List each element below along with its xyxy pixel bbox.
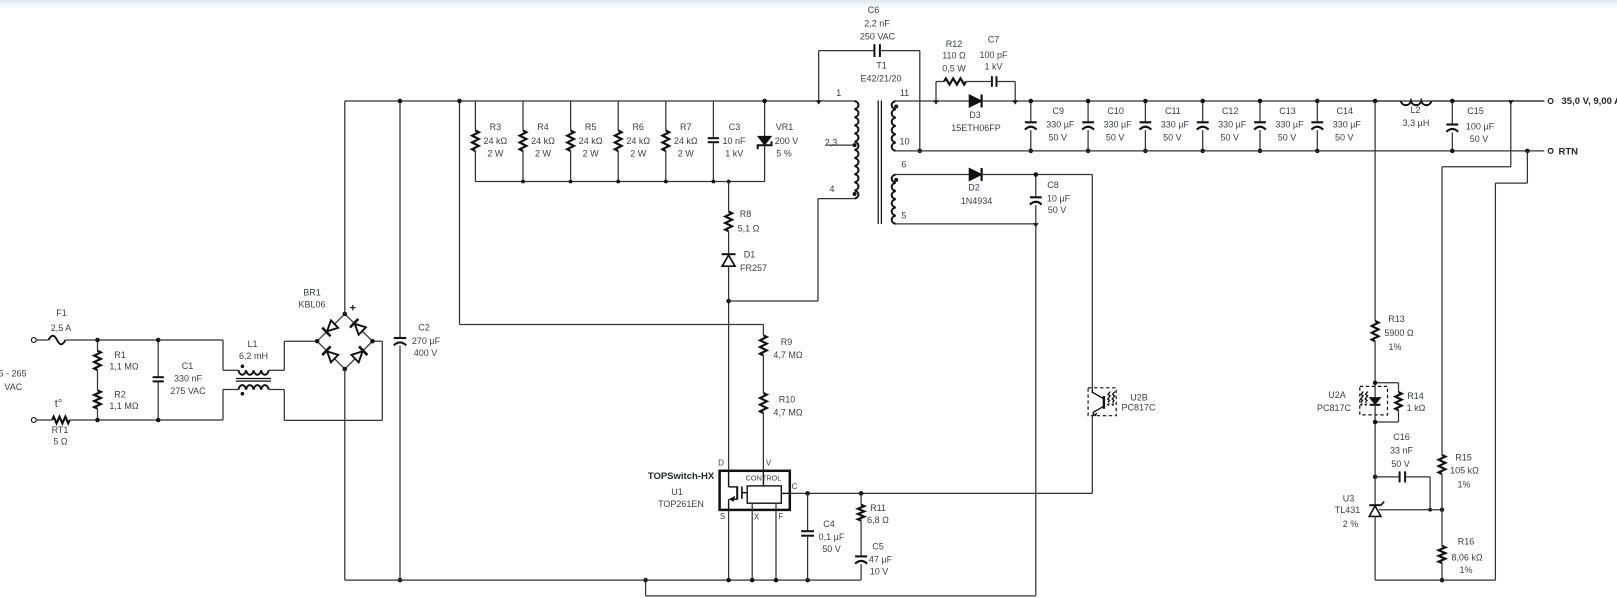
svg-text:5900 Ω: 5900 Ω	[1384, 328, 1414, 338]
svg-text:24 kΩ: 24 kΩ	[674, 136, 698, 146]
svg-text:L2: L2	[1410, 105, 1420, 115]
svg-text:250 VAC: 250 VAC	[860, 32, 896, 42]
svg-text:275 VAC: 275 VAC	[170, 386, 206, 396]
svg-text:R13: R13	[1388, 314, 1405, 324]
svg-text:FR257: FR257	[740, 263, 767, 273]
svg-text:4,7 MΩ: 4,7 MΩ	[773, 350, 803, 360]
svg-text:100 pF: 100 pF	[979, 50, 1008, 60]
svg-text:50 V: 50 V	[1470, 134, 1489, 144]
svg-text:1 kV: 1 kV	[984, 62, 1002, 72]
svg-text:C11: C11	[1165, 106, 1181, 116]
svg-text:U2A: U2A	[1328, 390, 1346, 400]
svg-text:U1: U1	[671, 487, 683, 497]
svg-text:50 V: 50 V	[1048, 205, 1067, 215]
svg-text:TL431: TL431	[1335, 505, 1361, 515]
svg-text:TOPSwitch-HX: TOPSwitch-HX	[648, 471, 715, 482]
svg-text:+: +	[350, 303, 356, 315]
svg-text:4: 4	[829, 184, 834, 194]
svg-text:50 V: 50 V	[1220, 133, 1239, 143]
svg-text:2,5 A: 2,5 A	[51, 323, 72, 333]
svg-text:50 V: 50 V	[1049, 133, 1068, 143]
svg-text:400 V: 400 V	[414, 348, 438, 358]
svg-text:105 kΩ: 105 kΩ	[1450, 466, 1479, 476]
svg-text:R9: R9	[781, 337, 793, 347]
svg-text:E42/21/20: E42/21/20	[860, 74, 901, 84]
svg-text:330 µF: 330 µF	[1161, 119, 1190, 129]
svg-text:10 nF: 10 nF	[722, 136, 746, 146]
svg-text:3,3 µH: 3,3 µH	[1403, 118, 1430, 128]
svg-text:1,1 MΩ: 1,1 MΩ	[109, 362, 139, 372]
svg-text:C15: C15	[1467, 106, 1484, 116]
svg-text:2 W: 2 W	[678, 148, 695, 158]
svg-text:270 µF: 270 µF	[412, 336, 441, 346]
svg-text:C1: C1	[182, 361, 194, 371]
svg-text:5: 5	[901, 211, 906, 221]
svg-text:R7: R7	[680, 122, 692, 132]
svg-text:50 V: 50 V	[1391, 459, 1410, 469]
svg-text:0,5 W: 0,5 W	[942, 64, 966, 74]
svg-text:2,2 nF: 2,2 nF	[864, 19, 890, 29]
svg-text:R11: R11	[870, 503, 886, 513]
svg-text:11: 11	[900, 88, 909, 98]
svg-text:2 %: 2 %	[1343, 519, 1359, 529]
svg-text:R1: R1	[114, 350, 126, 360]
svg-text:R12: R12	[946, 39, 963, 49]
svg-text:2 W: 2 W	[583, 148, 600, 158]
svg-text:C4: C4	[823, 519, 835, 529]
svg-text:5 Ω: 5 Ω	[53, 437, 68, 447]
svg-text:10 V: 10 V	[870, 567, 889, 577]
svg-text:24 kΩ: 24 kΩ	[626, 136, 650, 146]
svg-text:10: 10	[899, 137, 909, 147]
svg-text:50 V: 50 V	[1278, 133, 1297, 143]
svg-text:C14: C14	[1337, 106, 1354, 116]
svg-text:0,1 µF: 0,1 µF	[819, 532, 845, 542]
svg-text:C5: C5	[872, 542, 884, 552]
svg-text:1 kΩ: 1 kΩ	[1407, 403, 1426, 413]
svg-text:6: 6	[901, 160, 906, 170]
svg-text:330 µF: 330 µF	[1218, 119, 1247, 129]
svg-text:V: V	[766, 459, 772, 468]
svg-text:33 nF: 33 nF	[1390, 446, 1414, 456]
svg-text:L1: L1	[247, 339, 257, 349]
svg-text:C16: C16	[1393, 432, 1410, 442]
svg-text:R8: R8	[740, 209, 752, 219]
svg-text:R16: R16	[1458, 537, 1475, 547]
svg-text:1 kV: 1 kV	[725, 148, 743, 158]
svg-text:50 V: 50 V	[1163, 133, 1182, 143]
svg-text:6,8 Ω: 6,8 Ω	[867, 515, 889, 525]
svg-text:R14: R14	[1407, 391, 1424, 401]
svg-text:50 V: 50 V	[1106, 133, 1125, 143]
svg-text:C13: C13	[1279, 106, 1296, 116]
svg-text:C8: C8	[1047, 180, 1059, 190]
svg-text:330 µF: 330 µF	[1103, 119, 1132, 129]
svg-text:C6: C6	[868, 5, 880, 15]
svg-text:X: X	[754, 513, 760, 522]
svg-text:200 V: 200 V	[775, 136, 799, 146]
svg-text:D2: D2	[968, 183, 980, 193]
svg-text:24 kΩ: 24 kΩ	[484, 136, 508, 146]
svg-text:D: D	[718, 459, 724, 468]
svg-text:85 - 265: 85 - 265	[0, 369, 27, 379]
svg-text:24 kΩ: 24 kΩ	[531, 136, 555, 146]
svg-text:KBL06: KBL06	[298, 300, 325, 310]
svg-text:t°: t°	[55, 398, 62, 410]
svg-text:5,1 Ω: 5,1 Ω	[738, 224, 760, 234]
svg-text:6,2 mH: 6,2 mH	[239, 351, 268, 361]
svg-text:100 µF: 100 µF	[1466, 122, 1495, 132]
svg-text:F1: F1	[56, 308, 67, 318]
svg-text:R6: R6	[632, 122, 644, 132]
svg-text:5 %: 5 %	[776, 148, 792, 158]
svg-text:PC817C: PC817C	[1317, 403, 1352, 413]
svg-text:330 µF: 330 µF	[1046, 119, 1075, 129]
svg-text:U3: U3	[1343, 494, 1355, 504]
svg-text:50 V: 50 V	[1335, 133, 1354, 143]
svg-text:2 W: 2 W	[630, 148, 647, 158]
svg-text:1%: 1%	[1457, 480, 1470, 490]
svg-text:1: 1	[836, 88, 841, 98]
svg-text:VAC: VAC	[4, 382, 22, 392]
svg-text:R4: R4	[537, 122, 549, 132]
svg-text:50 V: 50 V	[822, 544, 841, 554]
svg-text:S: S	[720, 512, 725, 521]
svg-text:C3: C3	[729, 122, 741, 132]
svg-text:330 µF: 330 µF	[1275, 119, 1304, 129]
svg-text:2 W: 2 W	[535, 148, 552, 158]
svg-text:R2: R2	[114, 390, 126, 400]
svg-text:C10: C10	[1107, 106, 1124, 116]
svg-text:10 µF: 10 µF	[1047, 194, 1071, 204]
svg-text:RTN: RTN	[1559, 147, 1579, 158]
svg-text:BR1: BR1	[303, 288, 321, 298]
svg-text:1N4934: 1N4934	[961, 196, 993, 206]
svg-text:C2: C2	[418, 323, 430, 333]
svg-text:PC817C: PC817C	[1121, 403, 1156, 413]
svg-text:R5: R5	[585, 122, 597, 132]
svg-text:C12: C12	[1222, 106, 1239, 116]
svg-text:110 Ω: 110 Ω	[942, 51, 966, 61]
svg-text:330 nF: 330 nF	[174, 374, 203, 384]
svg-text:8,06 kΩ: 8,06 kΩ	[1451, 553, 1483, 563]
svg-text:2,3: 2,3	[825, 138, 838, 148]
svg-text:C7: C7	[988, 35, 1000, 45]
svg-text:2 W: 2 W	[487, 148, 504, 158]
svg-text:VR1: VR1	[776, 122, 794, 132]
svg-text:24 kΩ: 24 kΩ	[579, 136, 603, 146]
svg-text:T1: T1	[876, 61, 887, 71]
svg-text:15ETH06FP: 15ETH06FP	[951, 123, 1001, 133]
svg-text:4,7 MΩ: 4,7 MΩ	[773, 408, 803, 418]
svg-text:F: F	[779, 512, 784, 521]
svg-text:R15: R15	[1455, 453, 1472, 463]
svg-text:C9: C9	[1053, 106, 1065, 116]
svg-text:D1: D1	[744, 250, 756, 260]
svg-text:D3: D3	[969, 110, 981, 120]
svg-text:R10: R10	[779, 395, 796, 405]
svg-text:1%: 1%	[1459, 565, 1472, 575]
svg-text:TOP261EN: TOP261EN	[658, 499, 704, 509]
svg-text:1%: 1%	[1388, 342, 1401, 352]
svg-text:CONTROL: CONTROL	[746, 473, 782, 482]
svg-text:35,0 V, 9,00 A: 35,0 V, 9,00 A	[1562, 96, 1617, 107]
svg-text:330 µF: 330 µF	[1333, 119, 1362, 129]
svg-text:1,1 MΩ: 1,1 MΩ	[109, 401, 139, 411]
svg-text:U2B: U2B	[1130, 393, 1148, 403]
svg-text:R3: R3	[490, 122, 502, 132]
svg-text:47 µF: 47 µF	[869, 555, 893, 565]
svg-text:C: C	[792, 482, 798, 491]
svg-text:RT1: RT1	[52, 425, 69, 435]
